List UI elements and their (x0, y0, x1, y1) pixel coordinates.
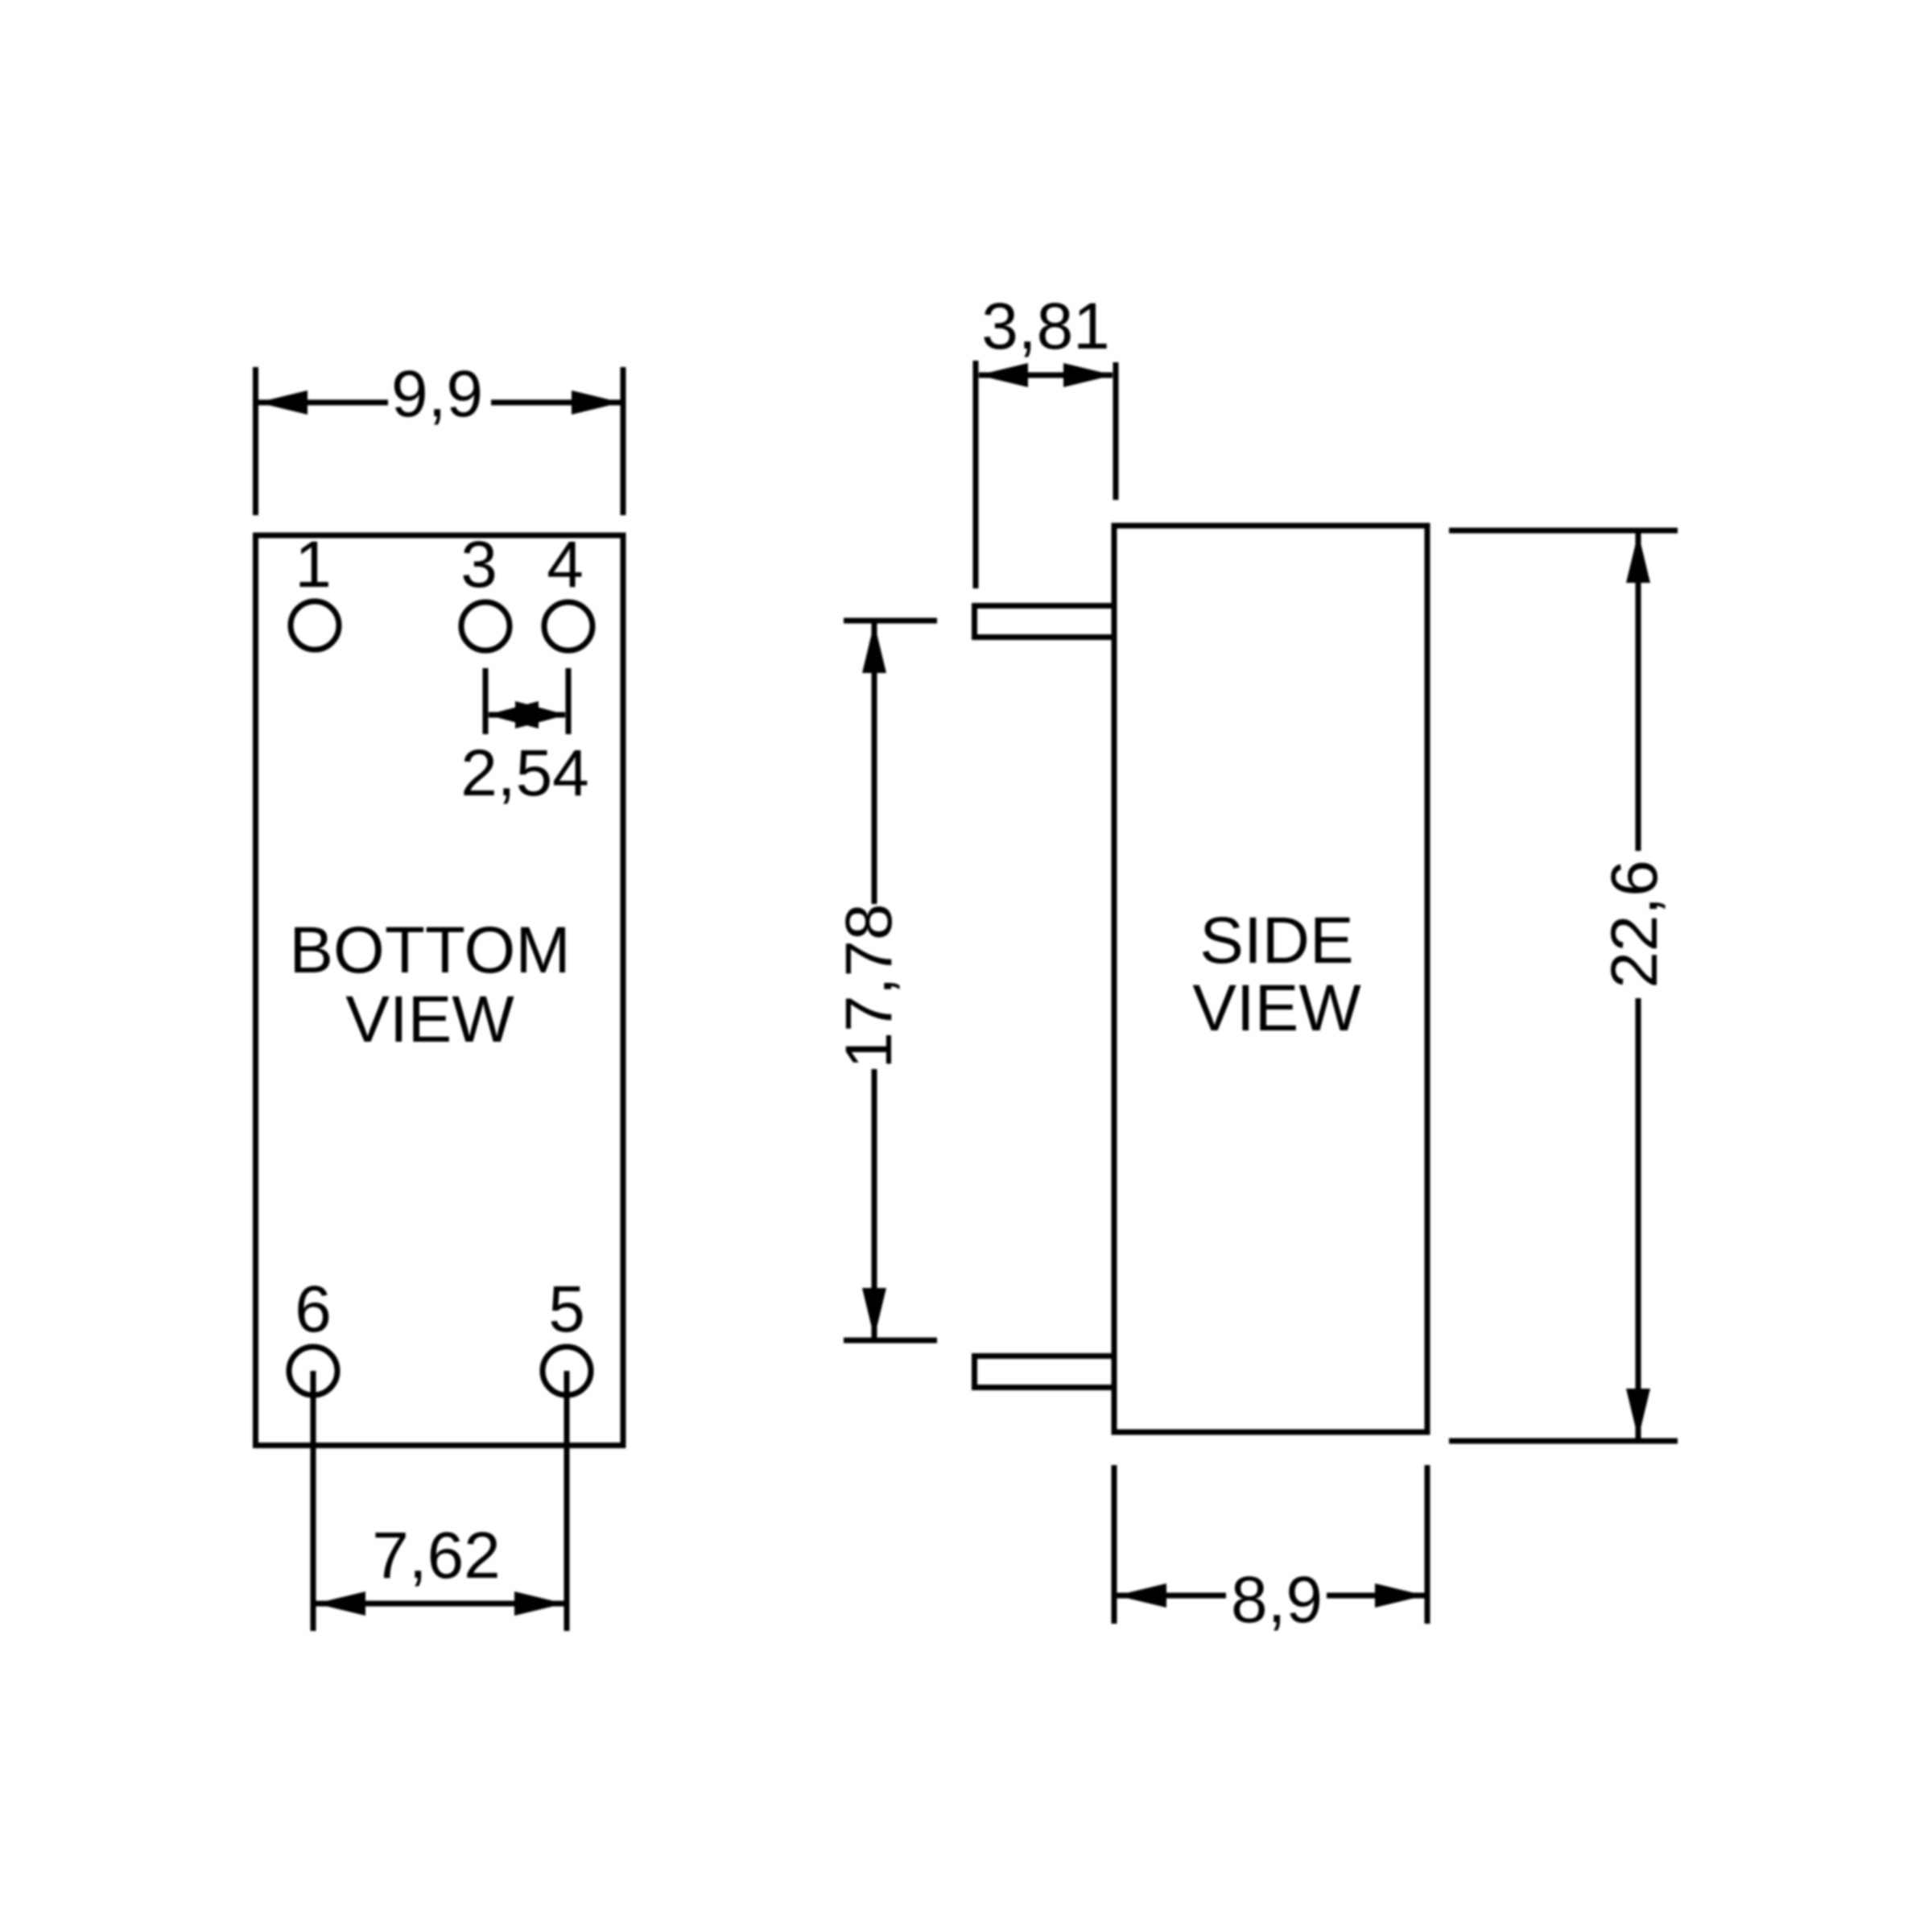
dimension 22,6 line lower segment (1636, 998, 1641, 1441)
side view top pin (975, 606, 1115, 638)
caption BOTTOM VIEW (289, 914, 570, 1056)
arrowhead 2,54 left (487, 701, 539, 729)
dimension 9,9 line left segment (256, 400, 389, 406)
dimension 17,78 line lower segment (872, 1069, 877, 1340)
wire: pin 6 leader line down (311, 1371, 316, 1631)
arrowhead 17,78 bottom (862, 1288, 886, 1338)
svg-text:9,9: 9,9 (391, 357, 483, 431)
side view body outline (1114, 526, 1427, 1432)
svg-text:4: 4 (547, 528, 584, 601)
dimension 22,6 bottom extension line (1449, 1439, 1678, 1444)
svg-text:SIDE: SIDE (1199, 904, 1353, 977)
dimension 17,78 bottom extension line (844, 1338, 937, 1344)
svg-text:3: 3 (460, 528, 497, 601)
dimension 8,9 right extension line (1425, 1465, 1430, 1624)
dimension 2,54 right extension line (566, 668, 572, 734)
dimension 3,81 line (979, 373, 1113, 378)
dimension 8,9 line right segment (1327, 1593, 1427, 1599)
svg-text:7,62: 7,62 (372, 1519, 501, 1592)
svg-text:2,54: 2,54 (460, 737, 589, 810)
pin 3 pad (461, 602, 510, 650)
svg-text:VIEW: VIEW (345, 983, 514, 1056)
arrowhead 3,81 left (978, 363, 1028, 387)
arrowhead 8,9 left (1117, 1583, 1166, 1608)
svg-text:VIEW: VIEW (1192, 972, 1361, 1045)
dimension 17,78 top extension line (844, 618, 937, 624)
dimension 3,81 left extension line (973, 361, 979, 588)
dimension 2,54 line (489, 712, 565, 718)
pin 5 pad (543, 1347, 591, 1395)
arrowhead 17,78 top (862, 623, 886, 673)
dimension 7,62 line (313, 1601, 567, 1607)
svg-text:6: 6 (295, 1273, 332, 1346)
dimension 2,54 left extension line (483, 668, 489, 734)
arrowhead 22,6 bottom (1626, 1389, 1650, 1439)
dimension 8,9 left extension line (1112, 1465, 1117, 1624)
arrowhead 7,62 right (514, 1591, 564, 1616)
dimension 17,78 line upper segment (872, 621, 877, 904)
dimension 22,6 top extension line (1449, 528, 1678, 534)
arrowhead 9,9 left (258, 390, 308, 415)
dimension 9,9 left extension line (253, 367, 258, 515)
arrowhead 2,54 right (515, 701, 567, 729)
svg-text:1: 1 (295, 528, 332, 601)
wire: pin 5 leader line down (564, 1371, 570, 1631)
svg-text:17,78: 17,78 (832, 903, 906, 1068)
dimension 8,9 line left segment (1114, 1593, 1226, 1599)
arrowhead 3,81 right (1063, 363, 1113, 387)
dimension 9,9 right extension line (621, 367, 626, 515)
svg-text:BOTTOM: BOTTOM (289, 914, 570, 987)
arrowhead 8,9 right (1375, 1583, 1425, 1608)
dimension 3,81 right extension line (1113, 362, 1119, 500)
pin 4 pad (544, 602, 592, 650)
arrowhead 7,62 left (316, 1591, 365, 1616)
dimension 22,6 line upper segment (1636, 530, 1641, 851)
side view bottom pin (975, 1356, 1115, 1388)
svg-text:22,6: 22,6 (1598, 860, 1671, 989)
svg-text:5: 5 (548, 1273, 585, 1346)
svg-text:8,9: 8,9 (1231, 1563, 1323, 1637)
arrowhead 9,9 right (572, 390, 621, 415)
caption SIDE VIEW (1192, 904, 1361, 1045)
pin 6 pad (289, 1347, 337, 1395)
pin 1 pad (291, 601, 339, 650)
arrowhead 22,6 top (1626, 533, 1650, 583)
dimension 9,9 line right segment (491, 400, 623, 406)
bottom view body outline (256, 535, 624, 1446)
svg-text:3,81: 3,81 (981, 290, 1110, 363)
